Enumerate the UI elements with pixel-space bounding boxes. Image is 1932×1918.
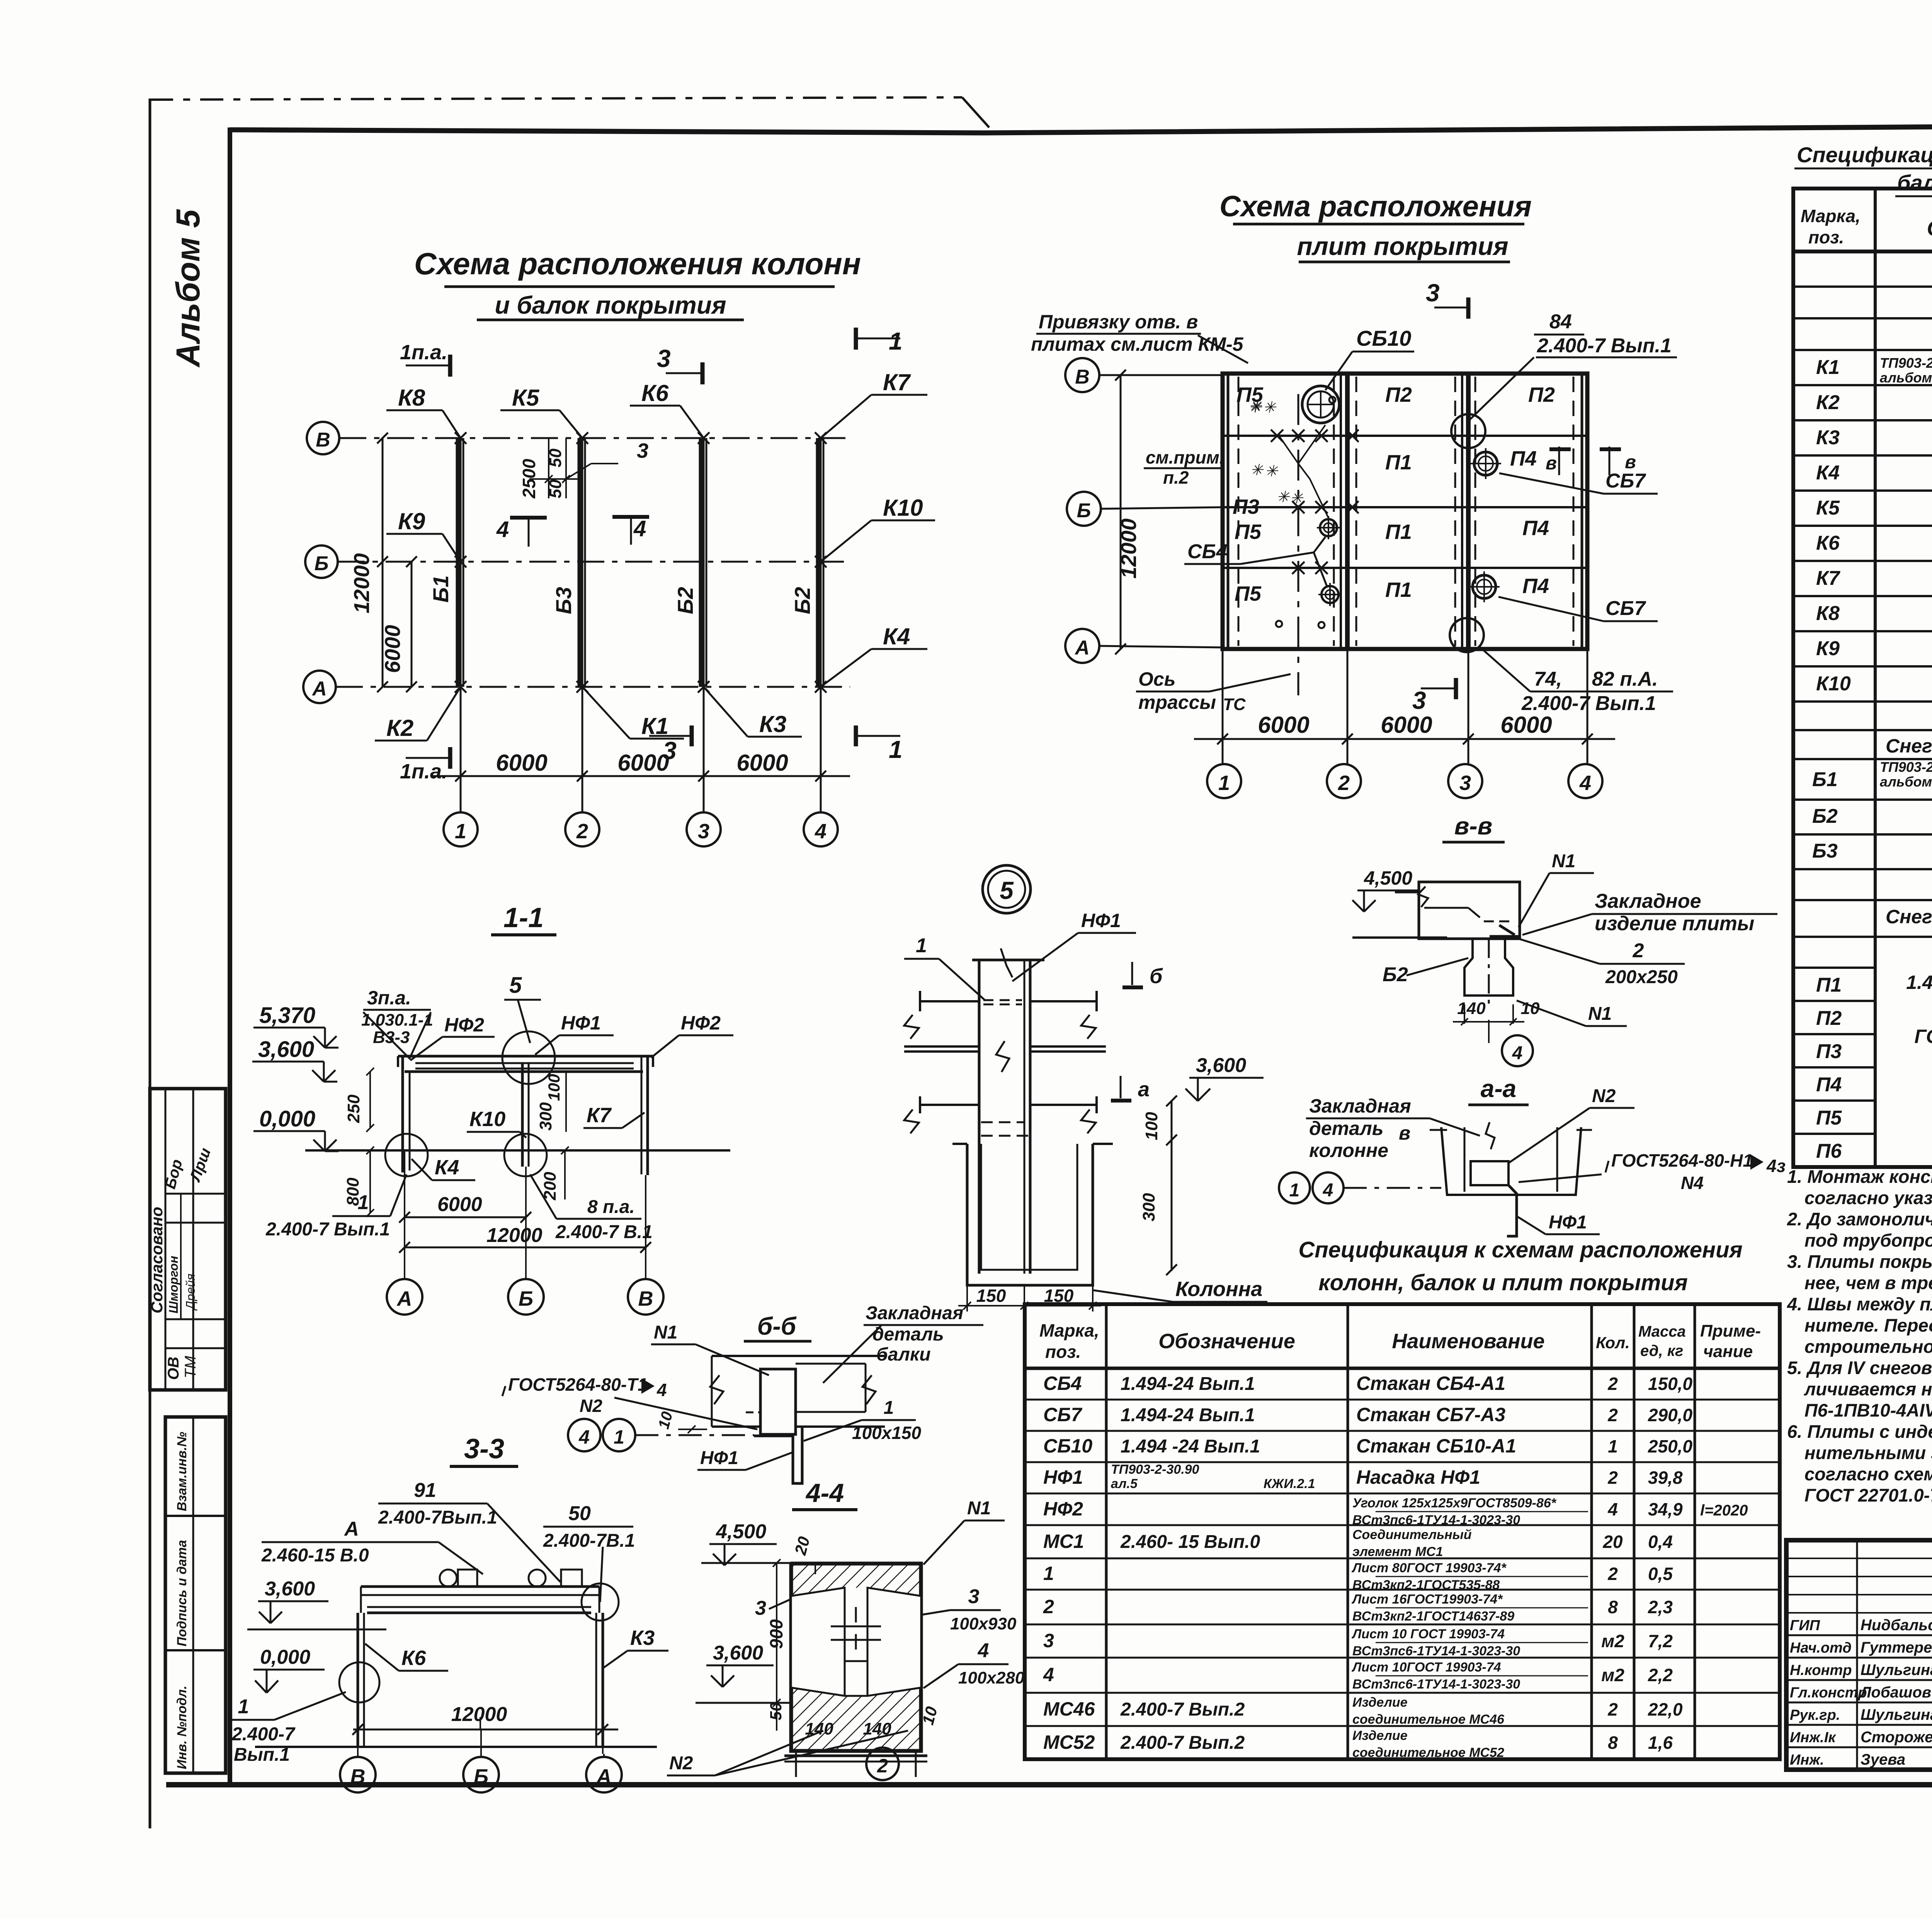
svg-text:Вып.1: Вып.1: [234, 1745, 290, 1765]
plate labels row 2: [1233, 447, 1537, 518]
4-4 base plates: [784, 1752, 927, 1777]
3-3 label 91: [378, 1479, 560, 1582]
svg-text:Спецификация элементов к схема: Спецификация элементов к схемам располож…: [1797, 143, 1932, 167]
svg-text:2: 2: [1338, 771, 1350, 795]
svg-text:СБ4: СБ4: [1043, 1373, 1082, 1394]
spec table header texts: [1801, 206, 1932, 247]
svg-text:Б3: Б3: [551, 587, 576, 614]
svg-text:22,0: 22,0: [1648, 1699, 1683, 1719]
svg-text:К3: К3: [759, 711, 786, 737]
svg-text:К6: К6: [401, 1646, 426, 1670]
svg-text:К3: К3: [630, 1626, 655, 1650]
3-3 axis bubbles В Б А: [340, 1729, 622, 1792]
svg-text:Колонна: Колонна: [1175, 1278, 1262, 1301]
section mark 3 bottom: [649, 725, 692, 764]
svg-text:2: 2: [1633, 939, 1644, 962]
а-а label НФ1: [1518, 1212, 1600, 1234]
axis Б row line: [1067, 492, 1223, 526]
plate rows П1-П6: [1816, 972, 1932, 1167]
svg-text:150: 150: [1044, 1286, 1074, 1306]
svg-text:4: 4: [815, 820, 827, 843]
svg-text:2.460- 15 Вып.0: 2.460- 15 Вып.0: [1120, 1532, 1260, 1552]
snow regions row (beams): [1886, 734, 1932, 757]
svg-text:К7: К7: [883, 369, 911, 395]
svg-text:а: а: [1138, 1078, 1150, 1101]
svg-text:П5: П5: [1235, 520, 1262, 544]
middle table title: [1298, 1237, 1742, 1295]
svg-text:м2: м2: [1601, 1665, 1624, 1685]
1-1 label К10: [467, 1108, 526, 1138]
svg-text:П6-1ПВ10-4АIVтª, остальные-ПГ(: П6-1ПВ10-4АIVтª, остальные-ПГ(ПВ)-3АIVт(…: [1804, 1400, 1932, 1420]
svg-text:Дрейя: Дрейя: [184, 1274, 197, 1311]
svg-text:В3-3: В3-3: [373, 1028, 410, 1047]
svg-text:К10: К10: [469, 1108, 505, 1131]
small dots: [1276, 397, 1335, 628]
svg-text:ТМ: ТМ: [182, 1356, 199, 1378]
axis line В (top): [307, 422, 850, 454]
4-4 I-beam body: [791, 1563, 922, 1752]
detail 5 label Колонна: [1094, 1278, 1267, 1302]
svg-text:личивается на 1 порядок приним: личивается на 1 порядок принимается П3-1…: [1804, 1379, 1932, 1399]
svg-text:под трубопроводы по чертежу КМ: под трубопроводы по чертежу КМ: [1804, 1230, 1932, 1250]
svg-text:8: 8: [1608, 1733, 1618, 1753]
detail 5 label НФ1: [1012, 910, 1136, 981]
в-в slab: [1395, 882, 1520, 939]
svg-text:в-в: в-в: [1454, 812, 1493, 840]
в-в embedded item marks: [1490, 925, 1520, 937]
svg-text:К2: К2: [1816, 391, 1840, 414]
svg-text:К2: К2: [386, 715, 413, 741]
svg-text:Лобашов: Лобашов: [1859, 1684, 1931, 1701]
3-3 elevation 3,600: [247, 1578, 386, 1629]
СБ7 marker bottom: [1469, 571, 1658, 621]
svg-text:4: 4: [1579, 771, 1591, 795]
svg-text:6000: 6000: [617, 750, 669, 776]
svg-text:П3: П3: [1816, 1040, 1842, 1063]
svg-text:Марка,: Марка,: [1801, 206, 1861, 226]
4-4 label N1: [923, 1498, 1005, 1565]
svg-text:5. Для IV снегового района мар: 5. Для IV снегового района марка плит по…: [1787, 1357, 1932, 1378]
svg-text:N2: N2: [580, 1396, 602, 1416]
svg-text:К3: К3: [1816, 426, 1840, 449]
svg-text:140: 140: [1457, 999, 1486, 1018]
а-а bubbles 1 4: [1279, 1172, 1441, 1203]
svg-text:2.400-7В.1: 2.400-7В.1: [543, 1531, 635, 1551]
svg-text:2: 2: [1607, 1699, 1618, 1719]
svg-text:3: 3: [663, 737, 677, 764]
svg-text:3: 3: [657, 345, 671, 372]
svg-text:Рук.гр.: Рук.гр.: [1790, 1707, 1840, 1723]
svg-text:П2: П2: [1528, 383, 1555, 406]
detail 5 bubble: [983, 865, 1031, 913]
diagram title: Схема расположения плит покрытия: [1219, 190, 1532, 262]
svg-text:П4: П4: [1510, 447, 1537, 470]
svg-text:балок и плит покрытия: балок и плит покрытия: [1897, 170, 1932, 195]
svg-text:2.400-7 В.1: 2.400-7 В.1: [555, 1222, 653, 1242]
svg-text:см.прим.: см.прим.: [1146, 447, 1225, 467]
svg-text:Подпись и дата: Подпись и дата: [175, 1540, 189, 1646]
column labels K2,K1,K3,K4,K5,K6,K7,K8,K9,K10 with leaders: [375, 369, 935, 741]
1-1 label 1 / 2.400-7 вып.1: [265, 1174, 406, 1240]
svg-text:Обозначение: Обозначение: [1927, 216, 1932, 240]
svg-text:4: 4: [1607, 1499, 1618, 1519]
svg-text:СБ7: СБ7: [1605, 597, 1646, 620]
diag2 grid bubbles 1-4: [1207, 764, 1602, 798]
svg-text:А: А: [311, 678, 327, 700]
svg-text:Взам.инв.№: Взам.инв.№: [175, 1432, 189, 1511]
svg-text:Шморгон: Шморгон: [167, 1256, 180, 1313]
svg-text:3. Плиты покрытий приварить к: 3. Плиты покрытий приварить к закладным …: [1787, 1251, 1932, 1272]
svg-text:ал.5: ал.5: [1111, 1476, 1138, 1491]
svg-text:Б1: Б1: [1812, 768, 1838, 791]
svg-text:N2: N2: [669, 1753, 693, 1774]
svg-text:п.2: п.2: [1163, 467, 1189, 488]
1-1 elevation 0,000: [253, 1106, 338, 1151]
svg-text:Б2: Б2: [790, 587, 815, 614]
dim 12000 rotated: [1115, 370, 1141, 654]
middle table grid: [1025, 1304, 1780, 1759]
svg-text:300: 300: [536, 1102, 555, 1131]
svg-text:1: 1: [358, 1191, 369, 1214]
svg-text:плит покрытия: плит покрытия: [1297, 232, 1508, 260]
svg-text:соединительное МС46: соединительное МС46: [1352, 1712, 1505, 1727]
section marks 4-4 small: [496, 516, 649, 547]
svg-text:Б: Б: [315, 552, 329, 575]
section 4-4 title: [792, 1478, 857, 1510]
svg-text:В: В: [1075, 366, 1090, 388]
svg-text:К7: К7: [1816, 567, 1840, 590]
section mark 1 top right: [856, 327, 903, 355]
svg-text:290,0: 290,0: [1648, 1405, 1693, 1425]
svg-text:А: А: [344, 1518, 359, 1540]
svg-text:Б3: Б3: [1812, 840, 1838, 862]
svg-text:2: 2: [877, 1755, 888, 1777]
svg-text:Н.контр: Н.контр: [1790, 1662, 1852, 1678]
1-1 dim 100 300: [536, 1072, 566, 1132]
svg-text:Закладная: Закладная: [1309, 1095, 1411, 1117]
slab beam lines vertical: [1228, 374, 1582, 649]
svg-text:1: 1: [1218, 771, 1230, 795]
beam rows Б1-Б3: [1812, 759, 1932, 862]
svg-text:НФ2: НФ2: [1043, 1498, 1083, 1520]
svg-text:деталь: деталь: [1309, 1118, 1383, 1139]
1-1 label К4: [385, 1134, 475, 1180]
svg-text:Закладная: Закладная: [866, 1303, 963, 1323]
svg-text:34,9: 34,9: [1648, 1499, 1683, 1519]
left dim line 12000: [349, 433, 388, 692]
svg-text:✳: ✳: [1250, 462, 1264, 479]
svg-text:4. Швы между плитами заполнить: 4. Швы между плитами заполнить бетоном В…: [1787, 1294, 1932, 1314]
svg-text:ГОСТ 22701.0-77: ГОСТ 22701.0-77: [1804, 1485, 1932, 1505]
svg-text:П1: П1: [1385, 578, 1412, 601]
svg-text:2: 2: [1607, 1374, 1618, 1394]
svg-text:П4: П4: [1816, 1074, 1842, 1096]
1-1 elevation 5,370: [253, 1003, 338, 1048]
а-а label N2: [1509, 1086, 1634, 1163]
svg-text:Лист 16ГОСТ19903-74*: Лист 16ГОСТ19903-74*: [1351, 1592, 1503, 1607]
svg-text:Зуева: Зуева: [1861, 1751, 1905, 1768]
svg-text:4з: 4з: [1766, 1156, 1786, 1176]
СБ10 marker circle: [1302, 326, 1414, 423]
svg-text:3: 3: [755, 1597, 766, 1619]
svg-text:250: 250: [344, 1094, 363, 1123]
svg-text:Насадка НФ1: Насадка НФ1: [1356, 1466, 1480, 1488]
svg-text:Б2: Б2: [1383, 963, 1408, 986]
middle table header: [1039, 1320, 1761, 1362]
svg-text:Б: Б: [1077, 499, 1091, 522]
slab joints horizontal: [1223, 436, 1587, 568]
1-1 circle at Б base: [504, 1134, 569, 1201]
svg-text:ГОСТ5264-80-Т1-: ГОСТ5264-80-Т1-: [508, 1374, 653, 1395]
svg-text:А: А: [396, 1287, 412, 1310]
svg-text:150: 150: [976, 1286, 1006, 1306]
svg-text:Ось: Ось: [1138, 668, 1175, 690]
svg-text:НФ1: НФ1: [1549, 1212, 1587, 1233]
svg-text:К9: К9: [1816, 637, 1840, 660]
4-4 dim 140 140: [784, 1719, 927, 1752]
grid bubbles 1-4: [444, 812, 838, 846]
spec table title: [1794, 143, 1932, 196]
section 3-3 title: [450, 1434, 518, 1466]
svg-text:и балок покрытия: и балок покрытия: [495, 291, 726, 319]
svg-text:Нач.отд: Нач.отд: [1790, 1640, 1852, 1656]
3-3 label 50: [543, 1502, 653, 1602]
4-4 dim 10 right: [918, 1705, 940, 1727]
svg-text:К9: К9: [398, 508, 425, 534]
svg-text:2: 2: [1043, 1596, 1054, 1617]
svg-text:100х930: 100х930: [950, 1614, 1017, 1633]
svg-text:2.400-7: 2.400-7: [231, 1724, 296, 1745]
svg-text:П2: П2: [1385, 383, 1412, 406]
3-3 label К6: [365, 1644, 448, 1671]
svg-text:ОВ: ОВ: [165, 1357, 182, 1380]
section 3 mark top of diag2: [1426, 279, 1468, 319]
3-3 mounting loops: [440, 1570, 582, 1587]
в-в dims 140 10: [1453, 999, 1540, 1043]
svg-text:ТП903-2-30.90: ТП903-2-30.90: [1880, 759, 1932, 775]
см.прим. п.2 note: [1144, 447, 1225, 488]
section 3 mark bottom of diag2: [1412, 678, 1456, 714]
4-4 label N2: [667, 1731, 908, 1775]
detail 5 section marks б and а: [1111, 962, 1163, 1101]
svg-text:84: 84: [1549, 311, 1572, 333]
svg-text:НФ1: НФ1: [700, 1448, 738, 1468]
svg-text:3,600: 3,600: [713, 1642, 763, 1664]
section mark 1 bottom right: [856, 725, 903, 763]
svg-text:СБ7: СБ7: [1043, 1404, 1083, 1425]
svg-text:Стакан СБ10-А1: Стакан СБ10-А1: [1356, 1435, 1516, 1457]
svg-text:2.400-7 Вып.1: 2.400-7 Вып.1: [1537, 335, 1672, 357]
svg-text:деталь: деталь: [872, 1324, 944, 1345]
svg-text:1: 1: [884, 1398, 894, 1418]
snowflake symbols: [1248, 398, 1304, 507]
svg-text:2,3: 2,3: [1648, 1597, 1673, 1617]
svg-text:НФ1: НФ1: [1043, 1466, 1083, 1488]
svg-text:Марка,: Марка,: [1039, 1320, 1099, 1340]
svg-text:П6: П6: [1816, 1140, 1842, 1162]
svg-text:альбом 6: альбом 6: [1880, 370, 1932, 386]
svg-text:ВСт3пс6-1ТУ14-1-3023-30: ВСт3пс6-1ТУ14-1-3023-30: [1352, 1513, 1520, 1527]
svg-text:✳: ✳: [1248, 399, 1262, 416]
svg-text:Гл.констр: Гл.констр: [1790, 1685, 1867, 1701]
svg-text:Б1: Б1: [429, 575, 453, 603]
svg-text:N1: N1: [967, 1498, 991, 1519]
svg-text:Гуттерерова: Гуттерерова: [1861, 1639, 1932, 1656]
svg-text:N1: N1: [654, 1322, 677, 1343]
svg-text:Б: Б: [474, 1765, 488, 1788]
leader lines from СБ markers cluster: [1279, 425, 1329, 520]
left dim 6000: [380, 556, 417, 692]
svg-text:3: 3: [968, 1585, 980, 1608]
svg-text:СБ7: СБ7: [1605, 470, 1646, 492]
svg-text:Стакан СБ7-А3: Стакан СБ7-А3: [1356, 1404, 1505, 1425]
grid column line 3 with beam Б2: [673, 438, 706, 812]
svg-text:Лист 80ГОСТ 19903-74*: Лист 80ГОСТ 19903-74*: [1351, 1561, 1507, 1575]
svg-text:строительного мусора и грязи.: строительного мусора и грязи.: [1804, 1336, 1932, 1357]
svg-text:5: 5: [509, 973, 522, 998]
svg-text:колонн, балок и плит покрыти: колонн, балок и плит покрытия: [1318, 1270, 1688, 1295]
svg-text:4: 4: [1323, 1180, 1333, 1201]
svg-text:П2: П2: [1816, 1007, 1842, 1030]
svg-text:100х280: 100х280: [958, 1668, 1025, 1687]
3-3 detail circles: [339, 1583, 619, 1702]
svg-text:Лист 10ГОСТ 19903-74: Лист 10ГОСТ 19903-74: [1351, 1660, 1501, 1675]
в-в elevation 4,500: [1352, 867, 1447, 938]
svg-text:балки: балки: [876, 1344, 931, 1365]
svg-text:1: 1: [1608, 1436, 1618, 1456]
svg-text:нителе. Перед замоноличиванием: нителе. Перед замоноличиванием необходим…: [1804, 1315, 1932, 1335]
4-4 bubble 2: [866, 1748, 899, 1780]
svg-text:ВСт3пс6-1ТУ14-1-3023-30: ВСт3пс6-1ТУ14-1-3023-30: [1352, 1677, 1520, 1692]
section а-а title: [1468, 1075, 1529, 1105]
svg-text:Кол.: Кол.: [1596, 1334, 1630, 1352]
svg-text:в: в: [1399, 1122, 1410, 1144]
svg-text:В: В: [316, 429, 330, 451]
svg-text:альбом 6: альбом 6: [1880, 774, 1932, 790]
svg-text:4: 4: [656, 1380, 667, 1400]
svg-text:4,500: 4,500: [1364, 867, 1412, 889]
svg-text:✳: ✳: [1265, 463, 1279, 480]
б-б dim 10: [655, 1410, 707, 1433]
svg-text:0,000: 0,000: [260, 1646, 310, 1668]
svg-text:В: В: [638, 1287, 653, 1310]
svg-text:3: 3: [1043, 1630, 1054, 1651]
svg-text:Изделие: Изделие: [1352, 1728, 1408, 1743]
svg-text:3-3: 3-3: [464, 1434, 504, 1464]
svg-text:2. До замоноличивания швов меж: 2. До замоноличивания швов между плитами…: [1787, 1209, 1932, 1229]
svg-text:50: 50: [767, 1702, 785, 1721]
svg-text:1.494-24 Вып.1: 1.494-24 Вып.1: [1121, 1374, 1255, 1394]
svg-text:2,2: 2,2: [1648, 1665, 1673, 1685]
svg-text:1-1: 1-1: [503, 902, 544, 933]
svg-text:Нидбальский: Нидбальский: [1861, 1617, 1932, 1634]
x marks on joints: [1271, 430, 1359, 574]
svg-text:1: 1: [455, 820, 466, 843]
svg-text:2.400-7 Вып.2: 2.400-7 Вып.2: [1120, 1733, 1245, 1753]
svg-text:200х250: 200х250: [1605, 967, 1678, 987]
svg-text:К8: К8: [1816, 602, 1840, 625]
plate labels row 3: [1235, 516, 1549, 544]
1-1 axis bubbles А Б В: [387, 1279, 663, 1315]
svg-text:20: 20: [1602, 1532, 1623, 1552]
svg-text:чание: чание: [1703, 1342, 1753, 1361]
svg-text:поз.: поз.: [1808, 227, 1844, 247]
а-а label Закладная деталь в колонне: [1306, 1095, 1480, 1161]
3-3 elevation 0,000: [253, 1646, 325, 1693]
svg-text:П5: П5: [1235, 582, 1262, 605]
svg-text:а-а: а-а: [1481, 1075, 1517, 1103]
svg-text:СБ10: СБ10: [1043, 1435, 1092, 1457]
б-б weld label ГОСТ5264-80-Т1: [502, 1374, 757, 1429]
в-в label N1 lower: [1517, 1001, 1627, 1026]
1-1 label 5 with circle: [502, 973, 555, 1084]
svg-text:м2: м2: [1601, 1631, 1624, 1651]
middle table data rows: [1043, 1373, 1748, 1760]
3-3 roof slab band: [361, 1587, 599, 1613]
svg-text:К7: К7: [587, 1104, 612, 1127]
4-4 elevation 4,500: [701, 1520, 796, 1565]
svg-text:3: 3: [1459, 771, 1471, 795]
svg-text:Б: Б: [519, 1287, 533, 1310]
svg-text:6000: 6000: [1381, 712, 1432, 738]
svg-text:б: б: [1150, 965, 1163, 988]
svg-text:К6: К6: [1816, 532, 1840, 554]
svg-text:НФ1: НФ1: [1081, 910, 1121, 931]
svg-text:НФ2: НФ2: [444, 1014, 484, 1036]
column node marks: [455, 432, 827, 693]
4-4 label 3 left: [755, 1597, 791, 1619]
3-3 label 1 2.400-7 вып.1: [231, 1692, 346, 1765]
svg-text:1п.а.: 1п.а.: [400, 760, 447, 783]
svg-text:2.400-7 Вып.1: 2.400-7 Вып.1: [1521, 692, 1656, 715]
svg-text:МС46: МС46: [1043, 1698, 1095, 1720]
ось трассы dash-dot line: [1136, 394, 1298, 714]
3-3 label К3: [602, 1626, 668, 1669]
1-1 elevation 3,600: [252, 1037, 337, 1082]
1-1 label 8п.а. / 2.400-7В.1: [530, 1174, 653, 1242]
svg-text:Шульгина: Шульгина: [1861, 1661, 1932, 1678]
в-в label N1: [1519, 851, 1594, 927]
svg-text:Снеговые районы:: Снеговые районы:: [1886, 735, 1932, 757]
axis line Б (middle): [305, 545, 850, 578]
1-1 label К7: [583, 1104, 645, 1128]
4-4 label 3 100x930: [922, 1585, 1017, 1633]
а-а embedded plate: [1471, 1161, 1517, 1236]
detail 5 dims 150 150: [958, 1285, 1101, 1312]
svg-text:изделие плиты: изделие плиты: [1595, 912, 1754, 935]
svg-text:1. Монтаж конструкций вести в: 1. Монтаж конструкций вести в соответств…: [1787, 1166, 1932, 1187]
svg-text:К4: К4: [435, 1156, 459, 1179]
привязку отв label: [1031, 311, 1248, 363]
svg-text:ед, кг: ед, кг: [1640, 1342, 1683, 1359]
svg-text:N4: N4: [1681, 1173, 1704, 1193]
svg-text:НФ2: НФ2: [681, 1012, 721, 1034]
3-3 label А 2.460-15: [261, 1518, 483, 1574]
74 82 marker bottom: [1450, 618, 1673, 715]
bottom dim line 6000x3: [433, 715, 850, 788]
svg-text:П4: П4: [1522, 574, 1549, 598]
svg-text:б-б: б-б: [757, 1312, 797, 1340]
4-4 label 4 100x280: [923, 1639, 1025, 1688]
svg-text:300: 300: [1139, 1193, 1158, 1221]
4-4 dim 900: [766, 1559, 796, 1711]
svg-text:К1: К1: [1816, 356, 1840, 379]
svg-text:8: 8: [1608, 1597, 1618, 1617]
svg-text:4: 4: [496, 517, 509, 542]
section в-в title: [1442, 812, 1505, 842]
а-а weld label ГОСТ5264-80-Н1: [1519, 1150, 1786, 1193]
1-1 label НФ2 left: [410, 1014, 495, 1060]
